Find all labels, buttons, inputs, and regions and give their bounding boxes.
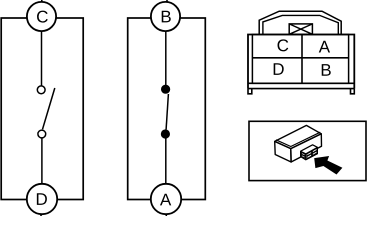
connector lock tab box (289, 24, 312, 34)
box 1 outline (contact side C-D) (1, 18, 83, 200)
relay connector block slot 2 (307, 154, 312, 159)
relay body left face (275, 141, 291, 162)
connector cavity divider horizontal (252, 57, 348, 59)
wire stub above terminal C (41, 0, 43, 3)
pin label B (322, 64, 331, 76)
pointer arrow (314, 156, 342, 175)
connector hood outer outline (259, 11, 341, 34)
connector cavity divider vertical (301, 35, 303, 84)
relay body right face (291, 134, 322, 162)
closed contact connecting line (166, 94, 168, 130)
switch lever (open contact) (43, 88, 55, 129)
terminal B (151, 2, 180, 31)
wire stub below terminal D (40, 213, 42, 216)
terminal D (27, 184, 57, 214)
connector base line (248, 88, 354, 90)
wire B to contact (165, 30, 167, 87)
relay photo frame (249, 121, 366, 180)
connector left foot (248, 89, 252, 94)
pin label A (319, 41, 330, 53)
box 2 outline (contact side B-A) (128, 18, 206, 200)
relay connector block slot 3 (312, 148, 317, 153)
connector body bottom line (248, 82, 354, 84)
connector body outer outline (248, 35, 354, 89)
wire stub above terminal B (166, 0, 168, 3)
relay body top face (275, 125, 322, 148)
pin label D (274, 63, 284, 75)
relay connector block body (301, 145, 318, 160)
connector right foot (351, 89, 355, 94)
relay body lid seam (276, 132, 320, 146)
terminal C (27, 2, 56, 31)
wire stub below terminal A (165, 213, 167, 216)
relay connector block edges (301, 147, 318, 160)
wire contact to A (165, 137, 167, 186)
connector lock tab X (289, 24, 312, 34)
switch moving contact (open circle bottom) (38, 130, 46, 138)
relay connector block slot 1 (307, 151, 312, 156)
terminal A (151, 184, 181, 214)
closed contact dot (top) (161, 85, 170, 94)
switch fixed contact (open circle top) (37, 86, 45, 94)
relay connector block left face slots (302, 152, 306, 158)
closed contact dot (bottom) (161, 129, 170, 138)
wire switch to D (41, 138, 43, 186)
pin label C (278, 39, 289, 51)
wire C to switch (41, 30, 43, 86)
connector hood inner outline (263, 15, 338, 34)
relay connector block slot 4 (312, 151, 317, 156)
connector cavity grid outline (252, 35, 348, 84)
